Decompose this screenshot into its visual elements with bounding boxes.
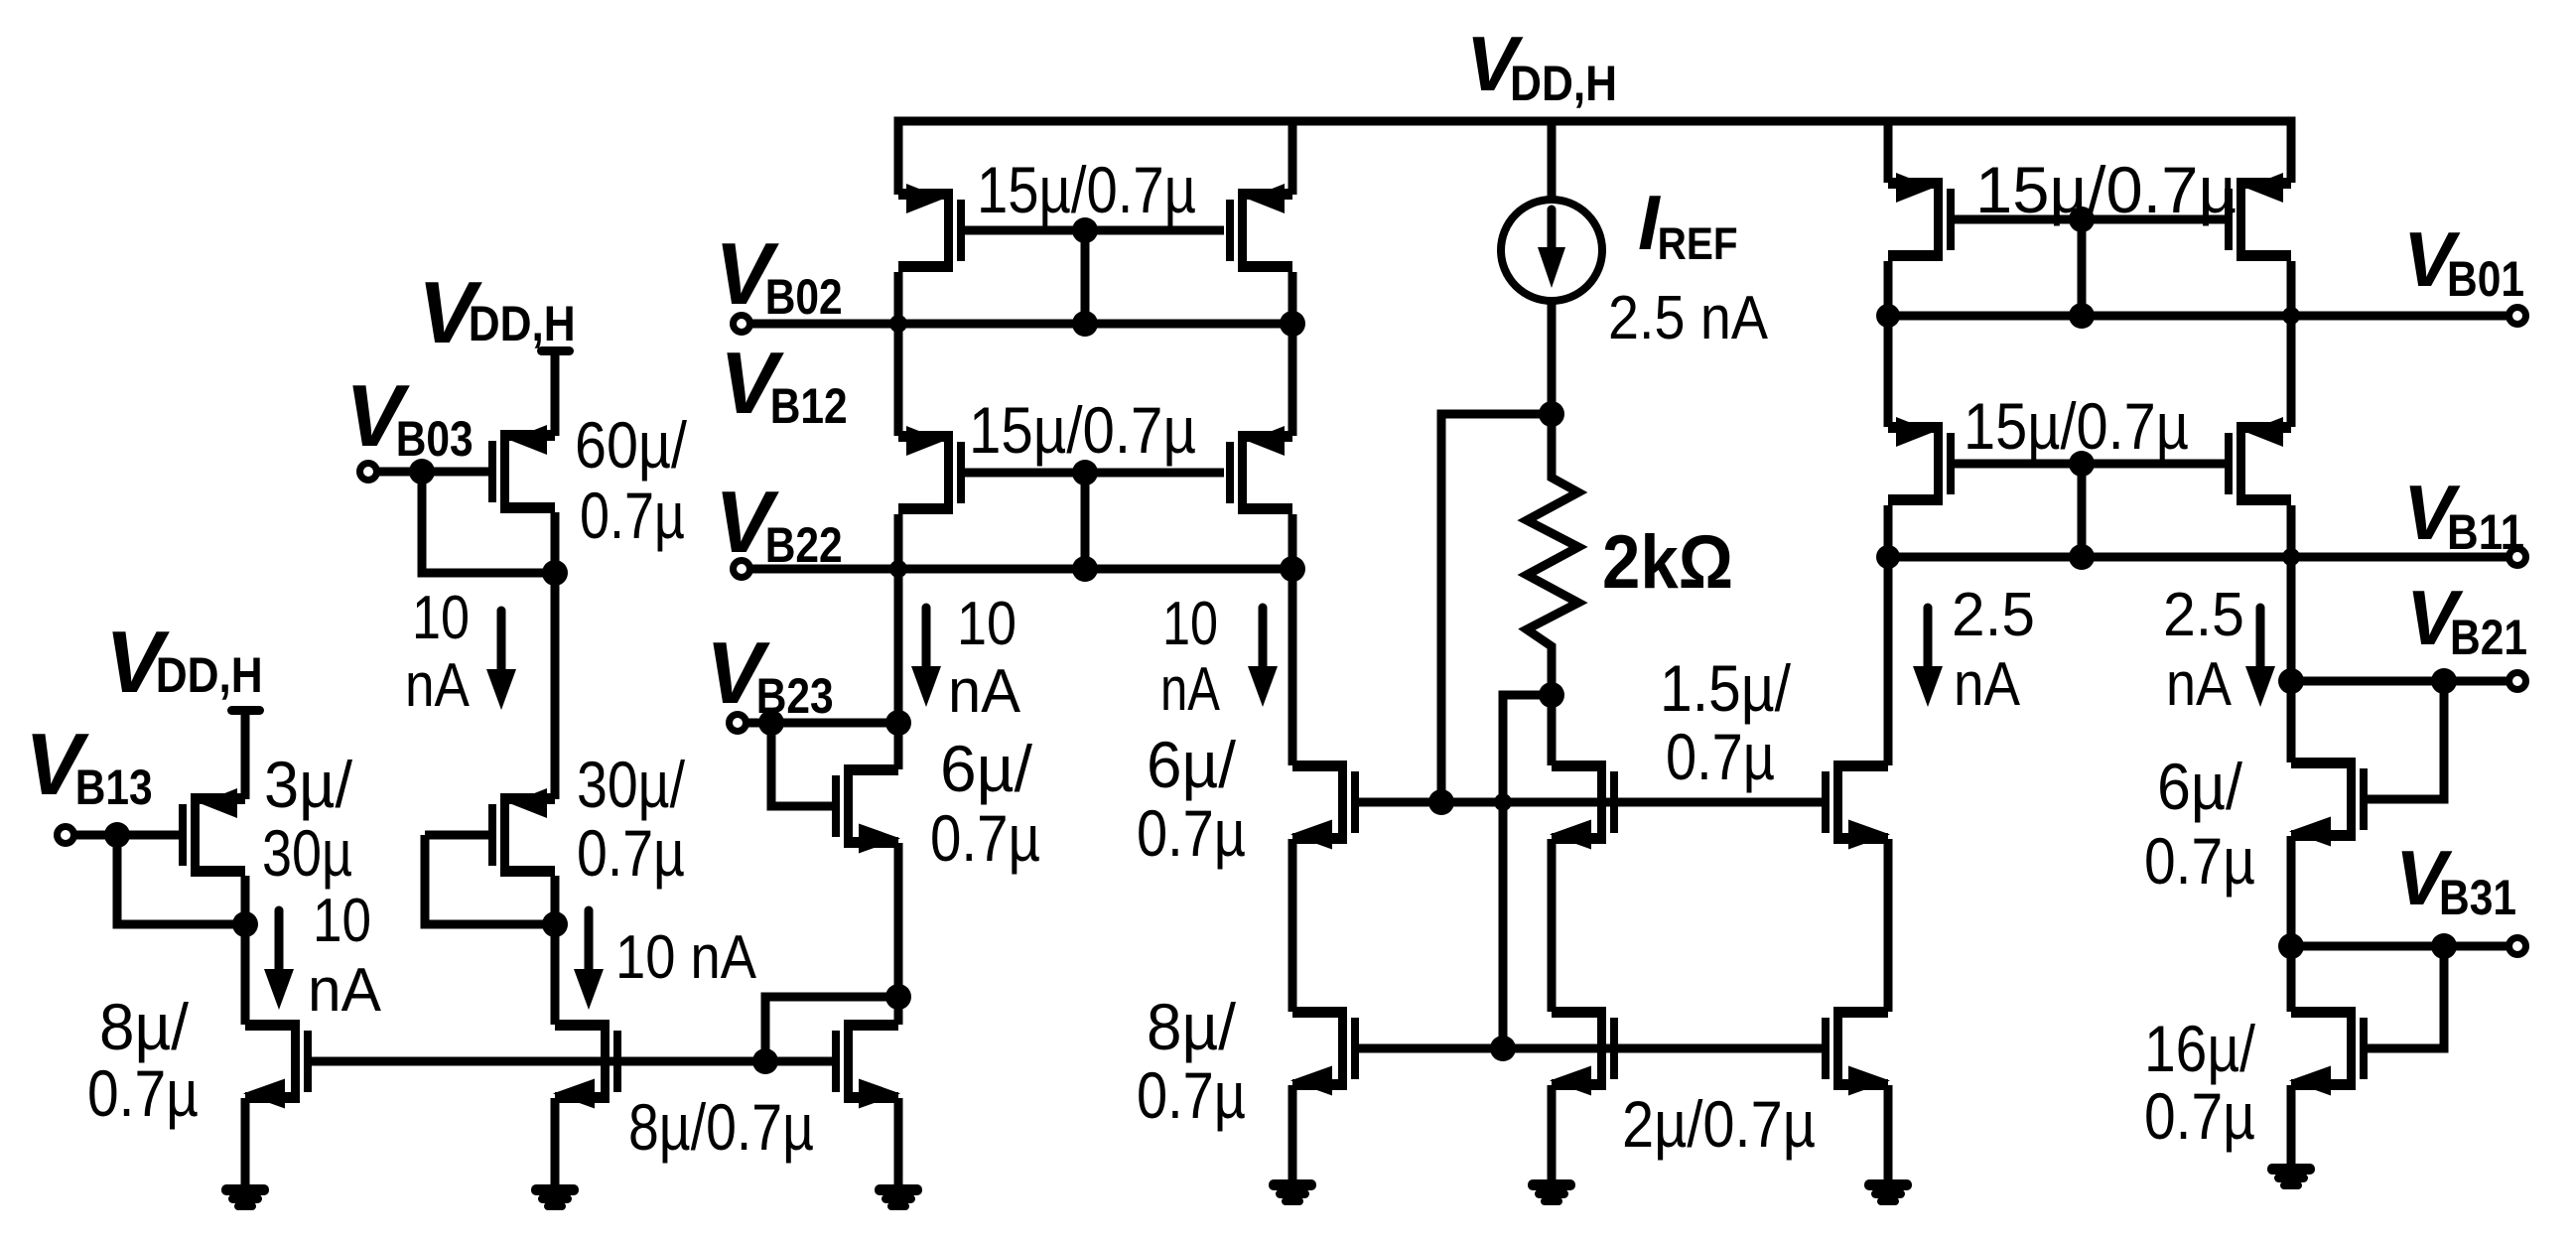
ground (sub-circuit B) — [531, 1184, 579, 1210]
transistor M_C2 NMOS 8µ/0.7µ, diode-connected (below VB23) — [832, 1020, 900, 1109]
svg-text:0.7µ: 0.7µ — [1137, 796, 1246, 870]
wire M_L1b drain down to VB02 rail — [1288, 272, 1297, 324]
node VB21/gate-loop junction — [2431, 668, 2457, 694]
wire M_R1a drain down to VB01 rail — [1884, 261, 1893, 316]
wire VB22 rail — [749, 565, 1292, 574]
wire shared gate line of bottom-left NMOS mirror — [312, 1057, 832, 1066]
wire middle row shared gate line — [1359, 798, 1822, 807]
wire VB23 terminal to mirror column — [746, 719, 898, 728]
wire down to M_A2 drain — [241, 924, 250, 1025]
transistor M_L1b PMOS 15µ/0.7µ (left mirror row 1, right) — [1226, 184, 1292, 272]
transistor M_A2 NMOS 8µ/0.7µ (far left) — [243, 1020, 312, 1109]
svg-text:0.7µ: 0.7µ — [580, 479, 685, 552]
node VB01/gate-drop junction — [2069, 303, 2095, 329]
wire right column down to M_M1 drain — [1288, 569, 1297, 765]
transistor M_M1 NMOS 6µ/0.7µ (middle row left) — [1290, 761, 1359, 850]
wire rail drop to left-mirror right column — [1288, 121, 1297, 195]
terminal VB01 — [2509, 308, 2526, 325]
transistor M_C1 NMOS 6µ/0.7µ, diode-connected (VB23) — [832, 764, 900, 854]
ground (below VB23) — [875, 1184, 922, 1210]
node M_B2 drain junction — [542, 911, 568, 937]
wire M_B3 source to ground — [551, 1098, 560, 1186]
svg-text:0.7µ: 0.7µ — [1137, 1058, 1246, 1132]
wire VB21 rail — [2291, 677, 2509, 686]
node VB23 / M_C1 drain junction — [885, 710, 911, 736]
terminal VB23 — [730, 715, 746, 732]
svg-text:2.5: 2.5 — [1952, 581, 2035, 649]
wire M_A1 drain down — [241, 876, 250, 924]
wire VB01 rail down to M_R2b source — [2287, 316, 2296, 427]
wire VB21 gate loop to M_T1 gate — [2368, 681, 2444, 799]
current arrow 10 nA (sub-circuit B upper) — [486, 611, 516, 710]
svg-text:30µ/: 30µ/ — [577, 748, 686, 821]
node VB22/gate-drop junction — [1072, 556, 1098, 582]
svg-text:3µ/: 3µ/ — [264, 748, 353, 821]
wire VB01 rail down to M_R2a source — [1884, 316, 1893, 427]
ground (bottom row center) — [1528, 1179, 1575, 1205]
wire gate of M_A1 — [117, 831, 179, 840]
svg-text:8µ/0.7µ: 8µ/0.7µ — [628, 1090, 814, 1164]
current arrow 2.5 nA (right mirror right column) — [2245, 608, 2275, 707]
wire down to M_B3 drain — [551, 924, 560, 1025]
wire VB11 rail — [1888, 553, 2509, 562]
svg-text:16µ/: 16µ/ — [2144, 1012, 2256, 1085]
VDD,H supply stub (far left) — [227, 706, 264, 799]
terminal VB22 — [734, 561, 750, 578]
svg-text:10: 10 — [313, 887, 371, 955]
svg-text:6µ/: 6µ/ — [940, 732, 1033, 805]
current arrow 10 nA (sub-circuit B lower) — [574, 910, 604, 1010]
transistor M_B2 PMOS 30µ/0.7µ, diode-connected — [488, 788, 555, 877]
svg-text:10: 10 — [957, 590, 1017, 658]
svg-text:nA: nA — [1954, 650, 2021, 719]
wire VB02 rail down to M_L2a source — [894, 324, 903, 436]
wire M_B2 diode loop (gate to drain) — [425, 835, 555, 924]
wire M_L1a drain down to VB02 rail — [894, 272, 903, 324]
svg-text:nA: nA — [948, 657, 1021, 726]
svg-text:10 nA: 10 nA — [615, 923, 757, 992]
node row-1 gate junction (left mirror) — [1072, 217, 1098, 243]
current arrow 2.5 nA (right mirror left column) — [1913, 608, 1943, 707]
terminal VB21 — [2509, 673, 2526, 690]
terminal VB02 — [734, 316, 750, 333]
wire M_T2 source to ground — [2287, 1085, 2296, 1166]
transistor M_R1a PMOS 15µ/0.7µ (right mirror row 1, left) — [1888, 173, 1955, 261]
svg-text:nA: nA — [308, 956, 382, 1025]
node B crossing middle gate line (connected) — [1494, 793, 1512, 811]
terminal VB03 — [360, 464, 377, 481]
svg-text:8µ/: 8µ/ — [1147, 990, 1237, 1063]
ground (VB31 branch) — [2267, 1164, 2315, 1189]
wire node B to bottom NMOS gate line — [1503, 695, 1552, 1048]
wire VB21 down to M_T1 drain — [2287, 681, 2296, 762]
node VB22/left column junction — [889, 560, 907, 578]
node VB03 gate junction — [409, 459, 435, 484]
ground (bottom row left) — [1269, 1179, 1316, 1205]
wire M_M1 source down to M_N1 drain — [1288, 839, 1297, 1012]
node row-2 gate junction (left mirror) — [1072, 460, 1098, 485]
terminal VB11 — [2509, 549, 2526, 566]
wire M_C2 drain up — [894, 997, 903, 1025]
transistor M_L2a PMOS 15µ/0.7µ (left mirror row 2, left) — [898, 426, 965, 514]
svg-text:60µ/: 60µ/ — [575, 408, 688, 482]
terminal VB13 — [58, 827, 74, 844]
wire M_L2a drain down to VB22 rail — [894, 514, 903, 569]
svg-text:0.7µ: 0.7µ — [930, 801, 1040, 875]
svg-text:0.7µ: 0.7µ — [2144, 1079, 2255, 1153]
node M_B1 drain junction — [542, 560, 568, 586]
node A (IREF / resistor top) — [1539, 401, 1564, 427]
node VB11/left column junction — [1876, 545, 1900, 569]
wire VB13 diode connection loop (gate to drain) — [117, 835, 245, 924]
node VB23 gate junction — [758, 710, 784, 736]
wire M_R2a drain down to VB11 rail — [1884, 505, 1893, 557]
node VB01/right column junction — [2282, 307, 2300, 325]
wire M_B1 drain to M_B2 source — [551, 573, 560, 799]
wire M_B2 drain down — [551, 876, 560, 924]
wire gate of M_B1 — [422, 468, 488, 477]
wire M_C1 source down to M_C2 drain — [894, 843, 903, 997]
node VB01/left column junction — [1876, 304, 1900, 328]
svg-text:nA: nA — [2166, 650, 2233, 719]
VDD,H supply stub (second column) — [537, 346, 574, 436]
wire VB03 diode loop (gate to drain) — [422, 472, 555, 573]
wire right column down to VB21 rail — [2287, 557, 2296, 681]
wire VB31 gate loop to M_T2 gate — [2368, 946, 2444, 1048]
current arrow 10 nA (left mirror right column) — [1248, 608, 1278, 707]
node VB02/left column junction — [889, 315, 907, 333]
wire left column down to VB23 node — [894, 569, 903, 723]
node VB22/right column junction — [1280, 556, 1305, 582]
svg-text:0.7µ: 0.7µ — [1666, 720, 1775, 793]
node VB11/right column junction — [2282, 548, 2300, 566]
wire M_C2 diode loop (drain to gate line) — [765, 997, 898, 1061]
svg-text:2kΩ: 2kΩ — [1602, 520, 1733, 605]
svg-text:6µ/: 6µ/ — [1147, 728, 1237, 801]
node VB02/right column junction — [1280, 311, 1305, 337]
node gate line junction (node A) — [1428, 789, 1454, 815]
wire row-1 gates tie (left mirror) — [965, 226, 1224, 235]
wire M_C1 drain up to node — [894, 723, 903, 769]
wire node A to middle NMOS gate line — [1441, 414, 1552, 802]
wire M_T1 source down to VB31 rail — [2287, 836, 2296, 946]
svg-text:0.7µ: 0.7µ — [577, 816, 685, 890]
wire M_A2 source to ground — [241, 1098, 250, 1186]
wire rail drop to IREF source — [1548, 121, 1557, 204]
terminal VB31 — [2509, 938, 2526, 955]
wire VB13 terminal to gate node — [73, 831, 117, 840]
svg-text:2.5: 2.5 — [2163, 581, 2244, 649]
node M_A1 drain / M_A2 drain junction — [232, 911, 258, 937]
node VB31/gate-loop junction — [2431, 933, 2457, 959]
node row-1 gate junction (right mirror) — [2069, 207, 2095, 232]
wire M_M3 source down to M_N3 drain — [1884, 839, 1893, 1012]
wire row-2 gates tie (left mirror) — [965, 469, 1224, 478]
svg-text:8µ/: 8µ/ — [99, 990, 190, 1063]
svg-text:0.7µ: 0.7µ — [87, 1056, 199, 1130]
transistor M_N2 NMOS 2µ/0.7µ (bottom row center) — [1550, 1007, 1618, 1096]
wire gate of M_B2 — [425, 831, 488, 840]
svg-text:1.5µ/: 1.5µ/ — [1660, 651, 1792, 725]
wire VB01 rail — [1888, 312, 2509, 321]
wire VB03 terminal to gate node — [376, 468, 422, 477]
transistor M_B1 PMOS 60µ/0.7µ, diode-connected — [488, 425, 555, 513]
transistor M_R2b PMOS 15µ/0.7µ (right mirror row 2, right) — [2225, 417, 2291, 505]
wire node B down to M_M2 drain — [1548, 695, 1557, 765]
wire VB02 rail — [749, 320, 1292, 329]
wire VB02 rail down to M_L2b source — [1288, 324, 1297, 436]
svg-text:10: 10 — [412, 584, 470, 652]
transistor M_B3 NMOS 8µ/0.7µ (second column) — [553, 1020, 621, 1109]
transistor M_L1a PMOS 15µ/0.7µ (left mirror row 1, left) — [898, 184, 965, 272]
wire row-2 gates tie (right mirror) — [1955, 460, 2225, 469]
node VB02/gate-drop junction — [1072, 311, 1098, 337]
resistor 2kΩ — [1527, 414, 1578, 695]
node VB13 gate junction — [104, 822, 130, 848]
wire M_B1 drain down — [551, 512, 560, 573]
current arrow 10 nA (left mirror left column) — [911, 608, 941, 707]
transistor M_M2 NMOS 1.5µ/0.7µ (middle row center) — [1550, 761, 1618, 850]
svg-text:2µ/0.7µ: 2µ/0.7µ — [1622, 1087, 1816, 1161]
ground (bottom row right) — [1864, 1179, 1912, 1205]
transistor M_T1 NMOS 6µ/0.7µ, diode-connected (VB21) — [2289, 758, 2368, 847]
node B (resistor bottom) — [1539, 682, 1564, 708]
current source IREF 2.5 nA — [1501, 200, 1602, 301]
svg-text:10: 10 — [1162, 590, 1218, 658]
transistor M_T2 NMOS 16µ/0.7µ, diode-connected (VB31) — [2289, 1007, 2368, 1096]
svg-text:nA: nA — [405, 651, 471, 720]
wire VB31 down to M_T2 drain — [2287, 946, 2296, 1012]
wire bottom row shared gate line — [1359, 1044, 1822, 1053]
svg-text:nA: nA — [1160, 655, 1221, 724]
wire M_R1b drain down to VB01 rail — [2287, 261, 2296, 316]
wire VB23 gate loop to M_C1 gate — [771, 723, 832, 806]
wire M_M2 source down to M_N2 drain — [1548, 839, 1557, 1012]
wire M_N3 source to ground — [1884, 1085, 1893, 1181]
svg-text:15µ/0.7µ: 15µ/0.7µ — [977, 153, 1196, 226]
wire right mirror left column down to M_M3 drain — [1884, 557, 1893, 765]
node VB31/column junction — [2278, 933, 2304, 959]
transistor M_R2a PMOS 15µ/0.7µ (right mirror row 2, left) — [1888, 417, 1955, 505]
svg-text:6µ/: 6µ/ — [2157, 750, 2243, 823]
node VB21/column junction — [2278, 668, 2304, 694]
wire row-1 gates tie (right mirror) — [1955, 215, 2225, 224]
transistor M_L2b PMOS 15µ/0.7µ (left mirror row 2, right) — [1226, 426, 1292, 514]
current arrow 10 nA (sub-circuit A) — [264, 910, 294, 1010]
svg-text:15µ/0.7µ: 15µ/0.7µ — [969, 393, 1196, 467]
transistor M_A1 PMOS 3µ/30µ, diode-connected from VDD,H — [179, 788, 245, 877]
wire M_N2 source to ground — [1548, 1085, 1557, 1181]
node gate line junction to M_C2 diode loop — [752, 1048, 778, 1074]
wire row-1 gates down to VB01 rail — [2078, 219, 2087, 316]
wire M_C2 source to ground — [894, 1098, 903, 1186]
ground (sub-circuit A) — [221, 1184, 269, 1210]
wire rail drop to right-mirror left column — [1884, 121, 1893, 183]
wire M_R2b drain down to VB11 rail — [2287, 505, 2296, 557]
wire row-2 gates down to VB22 rail — [1081, 473, 1090, 569]
transistor M_N1 NMOS 8µ/0.7µ (bottom row left) — [1290, 1007, 1359, 1096]
transistor M_N3 NMOS (bottom row right) — [1822, 1007, 1890, 1096]
wire VDD,H top rail — [898, 121, 2291, 195]
svg-text:30µ: 30µ — [262, 816, 352, 890]
svg-text:0.7µ: 0.7µ — [2144, 824, 2255, 898]
node bottom gate line junction (node B) — [1490, 1036, 1516, 1061]
transistor M_R1b PMOS 15µ/0.7µ (right mirror row 1, right) — [2225, 173, 2291, 261]
wire row-2 gates down to VB11 rail — [2078, 464, 2087, 557]
node row-2 gate junction (right mirror) — [2069, 451, 2095, 477]
node M_C1 source / M_C2 drain junction — [885, 984, 911, 1010]
node VB11/gate-drop junction — [2069, 544, 2095, 570]
wire M_N1 source to ground — [1288, 1085, 1297, 1181]
svg-text:2.5 nA: 2.5 nA — [1608, 284, 1769, 352]
wire IREF to node A — [1548, 301, 1557, 414]
wire VB31 rail — [2291, 942, 2509, 951]
wire M_L2b drain down to VB22 rail — [1288, 514, 1297, 569]
transistor M_M3 NMOS (middle row right) — [1822, 761, 1890, 850]
wire row-1 gates down to VB02 rail — [1081, 230, 1090, 324]
svg-text:15µ/0.7µ: 15µ/0.7µ — [1964, 389, 2189, 463]
